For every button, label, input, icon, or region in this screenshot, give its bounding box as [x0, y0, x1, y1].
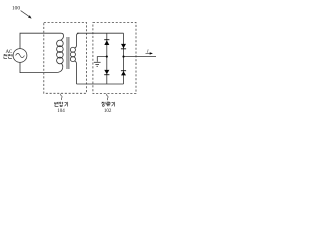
leader squiggle left box	[61, 94, 62, 100]
node dot left	[106, 56, 108, 58]
wire: primary coil entry elbow	[61, 33, 64, 40]
rectifier dashed box 102	[93, 22, 136, 93]
transformer dashed box 104	[44, 22, 87, 93]
node dot right	[122, 56, 124, 58]
AC source	[13, 49, 27, 63]
svg-text:102: 102	[104, 109, 112, 114]
secondary winding + rails	[70, 33, 156, 84]
wire: secondary top entry	[74, 33, 79, 48]
wire: primary bottom to AC	[20, 62, 57, 72]
diode D1 top-left (up)	[104, 39, 109, 45]
leader arrow for 100	[21, 11, 32, 19]
secondary winding L2	[70, 47, 75, 52]
diode D4 bottom-right (up)	[121, 70, 126, 75]
diode D3 top-right (down)	[121, 44, 126, 49]
hangul 전원 (AC power)	[4, 54, 12, 58]
primary winding L1	[57, 40, 64, 47]
svg-text:104: 104	[57, 109, 65, 114]
wire: AC top to primary	[20, 33, 64, 72]
hangul 변압기 (transformer)	[55, 102, 68, 107]
svg-text:100: 100	[12, 5, 20, 11]
ground	[94, 62, 101, 66]
svg-text:I: I	[146, 48, 149, 53]
current arrow Io	[146, 48, 153, 54]
wire: bottom rail	[77, 83, 124, 85]
transformer core	[67, 37, 69, 69]
wire: bridge left column	[106, 33, 108, 84]
wire: bridge right column	[123, 33, 125, 84]
wire: mid-left stub to ground	[97, 57, 107, 62]
wire: secondary bottom exit	[74, 61, 76, 84]
leader squiggle right box	[107, 94, 108, 100]
wire: top rail	[77, 32, 124, 34]
hangul 정류기 (rectifier)	[102, 102, 115, 107]
wire: output	[124, 56, 157, 58]
wire: primary coil exit elbow	[57, 63, 63, 72]
diode D2 bottom-left (down)	[104, 70, 109, 75]
